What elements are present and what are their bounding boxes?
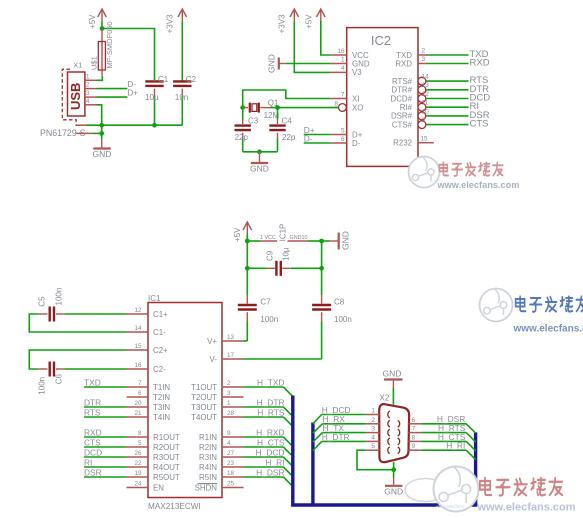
IC1 pin 17 V- <box>210 352 244 364</box>
svg-text:8: 8 <box>138 430 142 437</box>
svg-text:1: 1 <box>371 408 375 415</box>
svg-text:+5V: +5V <box>304 14 313 29</box>
junction node +5V/C1 <box>100 26 105 31</box>
wire and net label H_TX (bus B to X2) <box>313 423 366 442</box>
X1 pin 2 <box>85 82 97 89</box>
svg-text:H_RI: H_RI <box>446 441 465 451</box>
wire and net label RI (IC1 left) <box>84 458 127 468</box>
svg-text:RI: RI <box>84 458 92 468</box>
svg-text:7: 7 <box>341 91 345 98</box>
svg-text:H_RXD: H_RXD <box>256 428 284 438</box>
svg-text:T1IN: T1IN <box>153 383 170 392</box>
wire and net label H_RTS (IC1 right to bus) <box>244 408 293 427</box>
svg-text:2: 2 <box>227 380 231 387</box>
svg-text:2: 2 <box>422 47 426 54</box>
svg-text:2: 2 <box>371 417 375 424</box>
svg-text:RXD: RXD <box>470 58 490 69</box>
IC1 pin 28 T4OUT <box>191 410 243 422</box>
bus bottom horizontal <box>291 503 477 506</box>
wire and net label H_TXD (IC1 right to bus) <box>244 378 293 397</box>
wire +3V3 to C2 <box>181 21 183 81</box>
svg-text:5: 5 <box>341 127 345 134</box>
svg-text:VCC: VCC <box>265 235 276 241</box>
svg-text:H_CTS: H_CTS <box>257 438 285 448</box>
svg-text:8: 8 <box>334 100 338 107</box>
net label D+ (IC2) <box>304 125 315 135</box>
X1 shield pin row <box>76 132 102 134</box>
svg-text:T3IN: T3IN <box>153 403 170 412</box>
IC1 pin 4 R2IN <box>199 440 243 452</box>
svg-text:T1OUT: T1OUT <box>191 383 217 392</box>
IC1 pin 9 R1IN <box>199 430 243 442</box>
connector X2 body (DB9) <box>379 394 409 463</box>
wire and net label H_RI (IC1 right to bus) <box>244 458 293 477</box>
svg-text:R5IN: R5IN <box>199 473 217 482</box>
wire C8 column top <box>321 268 323 303</box>
bus B vertical <box>311 423 314 506</box>
svg-text:GND: GND <box>93 149 112 159</box>
X2 pin 8 <box>398 434 422 444</box>
svg-text:H_DTR: H_DTR <box>257 398 285 408</box>
svg-text:1: 1 <box>341 56 345 63</box>
X2 pin 5 <box>366 443 390 453</box>
wire and net label TXD (IC1 left) <box>84 378 127 388</box>
junction node IC1P gnd <box>319 239 324 244</box>
wire crystal to junction <box>270 107 278 109</box>
svg-text:H_DTR: H_DTR <box>322 432 350 442</box>
net label D- (IC2) <box>304 134 313 144</box>
X2 pin 3 <box>366 426 390 436</box>
wire C8 to IC1 V- pin 17 <box>244 358 322 360</box>
IC1 pin 7 T1IN <box>127 380 171 392</box>
svg-text:D-: D- <box>352 139 361 148</box>
wire and net label H_DCD (IC1 right to bus) <box>244 448 293 467</box>
svg-text:C7: C7 <box>260 298 271 307</box>
X2 pin 7 <box>398 426 422 436</box>
IC1 pin 8 R1OUT <box>127 430 180 442</box>
junction node pin4/rail <box>99 123 104 128</box>
net label D- <box>127 79 136 89</box>
svg-text:7: 7 <box>138 380 142 387</box>
junction node crystal right <box>275 105 280 110</box>
svg-text:CTS#: CTS# <box>392 120 413 129</box>
svg-text:R2IN: R2IN <box>199 443 217 452</box>
decoration watermark 1 (elecfans) - drawn over IC2 corner <box>409 157 520 191</box>
svg-text:R232: R232 <box>393 139 412 148</box>
svg-text:GND: GND <box>290 235 302 241</box>
svg-text:T2IN: T2IN <box>153 393 170 402</box>
svg-text:R4OUT: R4OUT <box>153 463 180 472</box>
supply +3V3 (IC2) <box>278 9 299 33</box>
IC2 pin 11 RI# wire and net label RI <box>400 100 479 113</box>
wire +5V arrow to junction <box>101 21 103 29</box>
svg-text:9: 9 <box>412 443 416 450</box>
svg-text:5: 5 <box>371 443 375 450</box>
svg-text:XI: XI <box>352 94 359 103</box>
wire and net label RTS (IC1 left) <box>84 408 127 418</box>
wire and net label H_DTR (bus B to X2) <box>313 432 366 451</box>
IC1 pin 5 R2OUT <box>127 440 180 452</box>
IC1 pin 14 C1- <box>127 325 167 337</box>
svg-text:21: 21 <box>134 410 142 417</box>
wire and net label H_RI (X2 to bus C) <box>421 441 475 460</box>
svg-text:www.elecfans.com: www.elecfans.com <box>477 502 576 514</box>
wire and net label H_DTR (IC1 right to bus) <box>244 398 293 417</box>
svg-text:C2-: C2- <box>153 365 166 374</box>
svg-text:4: 4 <box>86 98 90 105</box>
svg-text:GND: GND <box>250 164 269 174</box>
svg-text:H_DCD: H_DCD <box>256 448 285 458</box>
decoration watermark 3 (elecfans) <box>405 467 576 514</box>
capacitor C7 100n <box>238 298 278 342</box>
svg-text:GND: GND <box>267 54 277 73</box>
svg-text:20: 20 <box>134 400 142 407</box>
IC1 pin 18 R5IN <box>199 470 243 482</box>
svg-text:2: 2 <box>86 82 90 89</box>
svg-text:C9: C9 <box>266 250 275 261</box>
svg-text:C5: C5 <box>38 296 47 307</box>
GND rail row (USB section) <box>86 124 182 126</box>
IC2 pin 4 V3 <box>330 65 362 77</box>
svg-text:RXD: RXD <box>395 59 412 68</box>
wire X1 pin 4 down to GND rail <box>97 105 102 134</box>
svg-text:www.elecfans.com: www.elecfans.com <box>437 180 520 190</box>
svg-text:R4IN: R4IN <box>199 463 217 472</box>
svg-text:V+: V+ <box>207 337 217 346</box>
junction node C9 right <box>319 266 324 271</box>
svg-text:D-: D- <box>304 134 313 144</box>
wire and net label H_CTS (IC1 right to bus) <box>244 438 293 457</box>
svg-text:1: 1 <box>260 235 263 241</box>
svg-text:9: 9 <box>422 117 426 124</box>
svg-text:IC1P: IC1P <box>279 224 288 242</box>
IC1 pin 25 SHDN <box>195 480 244 492</box>
svg-text:T3OUT: T3OUT <box>191 403 217 412</box>
svg-text:+3V3: +3V3 <box>166 14 175 33</box>
IC2 pin 3 RXD wire and net label RXD <box>395 56 489 69</box>
IC1 pin 21 T4IN <box>127 410 171 422</box>
wire fuse to X1 pin 1 <box>97 76 103 80</box>
svg-text:R3OUT: R3OUT <box>153 453 180 462</box>
wire and net label RXD (IC1 left) <box>84 428 127 438</box>
ground (IC1P, rotated) <box>322 231 351 250</box>
op IC2 body (USB-serial bridge) <box>347 28 418 167</box>
ground (above X2) <box>383 369 403 389</box>
IC2 pin 5 D+ <box>330 127 362 139</box>
svg-text:H_RI: H_RI <box>265 458 284 468</box>
X2 pin 1 <box>366 408 390 418</box>
X1 shield stub to rail <box>76 124 86 126</box>
capacitor C6 100n <box>38 362 127 395</box>
wire +5V column to C9 node <box>246 241 248 268</box>
wire +5V junction to C1 top <box>102 29 155 81</box>
bus A vertical <box>291 396 294 506</box>
svg-text:EN: EN <box>153 483 164 492</box>
IC2 pin 10 DSR# wire and net label DSR <box>391 108 490 121</box>
svg-text:SHDN: SHDN <box>195 483 218 492</box>
wire and net label H_CTS (X2 to bus C) <box>421 432 475 451</box>
wire X2 pin 5 loop to gnd <box>357 450 394 470</box>
svg-text:+5V: +5V <box>88 14 97 29</box>
IC1 pin 3 T2OUT <box>191 390 243 402</box>
svg-text:16: 16 <box>134 362 142 369</box>
svg-text:5: 5 <box>138 440 142 447</box>
wire to ground (crystal) <box>259 152 261 162</box>
wire and net label H_DSR (X2 to bus C) <box>421 414 475 433</box>
supply +5V (IC1 power) <box>233 222 252 242</box>
svg-text:GND: GND <box>352 59 370 68</box>
svg-text:3: 3 <box>371 426 375 433</box>
svg-text:16: 16 <box>337 48 345 55</box>
net label D+ <box>127 88 138 98</box>
wire D- from X1 pin 2 <box>97 88 128 90</box>
svg-text:10µ: 10µ <box>145 93 159 102</box>
svg-text:10n: 10n <box>175 93 188 102</box>
wire XO (junction to pin 8 bubble) <box>278 107 339 109</box>
svg-text:C1-: C1- <box>153 328 166 337</box>
IC1 pin 19 R5OUT <box>127 470 180 482</box>
svg-text:D+: D+ <box>127 88 138 98</box>
wire gnd stub (below X2) <box>393 478 395 485</box>
svg-text:10: 10 <box>422 108 430 115</box>
svg-text:6: 6 <box>138 390 142 397</box>
svg-text:15: 15 <box>421 136 429 143</box>
supply +3V3 (USB section) <box>166 9 187 33</box>
wire and net label H_RXD (IC1 right to bus) <box>244 428 293 447</box>
X2 pin 9 <box>398 443 422 453</box>
svg-text:MF-SMDF050: MF-SMDF050 <box>105 21 114 68</box>
svg-text:DTR#: DTR# <box>391 86 412 95</box>
svg-text:DTR: DTR <box>84 398 101 408</box>
svg-text:24: 24 <box>134 480 142 487</box>
svg-text:GND: GND <box>341 231 351 250</box>
svg-text:C2+: C2+ <box>153 346 168 355</box>
IC2 pin 12 DCD# wire and net label DCD <box>391 91 491 104</box>
svg-text:DCD#: DCD# <box>391 94 413 103</box>
wire C7 column top <box>246 268 248 303</box>
svg-text:3: 3 <box>227 390 231 397</box>
capacitor C8 100n <box>312 298 352 360</box>
svg-text:19: 19 <box>134 470 142 477</box>
decoration watermark 2 (elecfans) <box>480 289 583 335</box>
svg-text:www.elecfans.com: www.elecfans.com <box>513 324 583 335</box>
IC2 pin 6 D- <box>330 136 360 148</box>
X1 pin 4 <box>85 98 97 105</box>
svg-text:C6: C6 <box>55 374 64 385</box>
svg-text:22: 22 <box>134 460 142 467</box>
ground (USB section) <box>93 149 112 160</box>
X2 pin 4 <box>366 434 390 444</box>
svg-text:4: 4 <box>227 440 231 447</box>
svg-text:T4OUT: T4OUT <box>191 413 217 422</box>
svg-text:R3IN: R3IN <box>199 453 217 462</box>
IC1 pin 26 R3OUT <box>127 450 180 462</box>
svg-text:USB: USB <box>68 83 83 110</box>
capacitor C5 100n <box>38 288 127 322</box>
IC1 pin 15 C2+ <box>127 343 169 355</box>
svg-text:6: 6 <box>341 136 345 143</box>
IC1P power gate pins VCC/GND <box>247 224 321 242</box>
svg-text:100n: 100n <box>334 315 352 324</box>
ground (IC2 pin 1, rotated) <box>267 54 286 73</box>
svg-text:X2: X2 <box>380 394 390 403</box>
svg-text:RTS#: RTS# <box>392 77 413 86</box>
svg-text:RTS: RTS <box>84 408 101 418</box>
svg-text:+5V: +5V <box>233 227 242 242</box>
wire +5V to IC2 VCC pin 16 <box>321 21 331 55</box>
wire C3 column <box>242 108 244 124</box>
wire D- to IC2 pin 6 <box>304 142 331 144</box>
junction node X2 gnd <box>391 467 396 472</box>
svg-text:T4IN: T4IN <box>153 413 170 422</box>
svg-text:XO: XO <box>352 103 363 112</box>
wire gnd to X2 top <box>392 388 394 405</box>
svg-text:H_RTS: H_RTS <box>257 408 285 418</box>
svg-text:22p: 22p <box>282 133 296 142</box>
svg-text:14: 14 <box>134 325 142 332</box>
svg-text:3: 3 <box>422 56 426 63</box>
svg-text:1: 1 <box>86 73 90 80</box>
svg-text:13: 13 <box>422 82 430 89</box>
IC2 pin 7 XI <box>330 91 359 103</box>
wire D+ to IC2 pin 5 <box>304 134 331 136</box>
wire crystal gnd row <box>243 151 278 153</box>
svg-text:100n: 100n <box>260 315 278 324</box>
IC2 pin 2 TXD wire and net label TXD <box>396 47 488 60</box>
svg-text:26: 26 <box>134 450 142 457</box>
svg-text:+3V3: +3V3 <box>278 14 287 33</box>
svg-text:4: 4 <box>341 65 345 72</box>
svg-text:C4: C4 <box>282 116 293 125</box>
wire and net label H_DSR (IC1 right to bus) <box>244 468 293 487</box>
svg-text:CTS: CTS <box>470 119 489 130</box>
crystal Q1 12M <box>243 99 280 120</box>
IC2 pin 8 XO (inverted) <box>330 100 363 112</box>
svg-text:25: 25 <box>227 480 235 487</box>
wire and net label H_RTS (X2 to bus C) <box>421 423 475 442</box>
wire and net label H_RX (bus B to X2) <box>313 414 366 433</box>
connector X1 shield outline (dashed) <box>62 69 76 126</box>
IC1 pin 13 V+ <box>207 334 243 346</box>
IC1 pin 2 T1OUT <box>191 380 243 392</box>
capacitor C3 22p <box>235 116 259 152</box>
svg-text:www.elecfans: www.elecfans <box>436 504 465 509</box>
junction node shield/gnd <box>99 131 104 136</box>
svg-text:IC2: IC2 <box>371 33 391 48</box>
svg-text:6: 6 <box>412 417 416 424</box>
wire and net label DCD (IC1 left) <box>84 448 127 458</box>
wire junction to ground <box>101 133 103 147</box>
X1 pin 3 <box>85 90 97 97</box>
svg-text:DCD: DCD <box>84 448 102 458</box>
svg-text:DSR: DSR <box>84 468 102 478</box>
svg-text:U$1: U$1 <box>90 56 99 70</box>
svg-text:T2OUT: T2OUT <box>191 393 217 402</box>
IC1 pin 16 C2- <box>127 362 167 374</box>
svg-text:GND: GND <box>383 369 402 379</box>
svg-text:V3: V3 <box>352 68 362 77</box>
capacitor C9 10u <box>247 247 321 276</box>
bus C vertical (right) <box>474 432 477 505</box>
IC1 pin 23 R4IN <box>199 460 243 472</box>
svg-text:100n: 100n <box>55 288 64 306</box>
IC1 pin 6 T2IN <box>127 390 171 402</box>
wire and net label CTS (IC1 left) <box>84 438 127 448</box>
junction node crystal left <box>240 105 245 110</box>
IC1 pin 22 R4OUT <box>127 460 180 472</box>
svg-text:12: 12 <box>134 307 142 314</box>
svg-text:RXD: RXD <box>84 428 102 438</box>
svg-text:IC1: IC1 <box>148 294 161 303</box>
svg-text:8: 8 <box>412 434 416 441</box>
ground (crystal) <box>250 163 269 174</box>
X2 pin 2 <box>366 417 390 427</box>
svg-text:C1: C1 <box>158 75 169 84</box>
svg-text:C8: C8 <box>334 298 345 307</box>
capacitor C4 22p <box>269 116 296 152</box>
junction node +5V/IC1P <box>245 239 250 244</box>
svg-text:7: 7 <box>412 426 416 433</box>
svg-text:23: 23 <box>227 460 235 467</box>
svg-text:10: 10 <box>302 235 308 241</box>
svg-text:18: 18 <box>227 470 235 477</box>
svg-text:RI#: RI# <box>400 103 413 112</box>
IC1 pin 24 EN <box>127 480 165 492</box>
IC2 pin 1 GND <box>330 56 369 68</box>
svg-text:22p: 22p <box>235 133 249 142</box>
junction node C1/rail <box>152 123 157 128</box>
svg-text:V-: V- <box>210 355 218 364</box>
svg-text:CTS: CTS <box>84 438 101 448</box>
wire +5V arrow to node <box>246 234 248 241</box>
svg-text:MAX213ECWI: MAX213ECWI <box>148 502 201 511</box>
svg-text:1: 1 <box>227 400 231 407</box>
svg-text:17: 17 <box>227 352 235 359</box>
svg-text:R5OUT: R5OUT <box>153 473 180 482</box>
svg-text:R1OUT: R1OUT <box>153 433 180 442</box>
svg-text:13: 13 <box>227 334 235 341</box>
wire +3V3 to IC2 V3 pin 4 <box>294 21 330 72</box>
wire C7 to IC1 V+ pin 13 <box>244 340 248 342</box>
capacitor C1 10u <box>145 75 169 125</box>
svg-text:C2: C2 <box>186 75 197 84</box>
junction node C9 left <box>245 266 250 271</box>
IC1 pin 1 T3OUT <box>191 400 243 412</box>
svg-text:R2OUT: R2OUT <box>153 443 180 452</box>
IC2 pin 9 CTS# wire and net label CTS <box>392 117 489 130</box>
svg-text:4: 4 <box>371 434 375 441</box>
wire GND to IC2 pin 1 <box>286 63 331 65</box>
svg-text:9: 9 <box>227 430 231 437</box>
wire pin 15 to C6 <box>29 350 126 369</box>
svg-text:10µ: 10µ <box>281 247 290 261</box>
svg-text:GND: GND <box>384 486 403 496</box>
IC2 pin 14 RTS# wire and net label RTS <box>392 74 488 87</box>
junction node crystal gnd <box>257 149 262 154</box>
svg-text:14: 14 <box>422 74 430 81</box>
svg-text:X1: X1 <box>73 61 82 70</box>
supply +5V (IC2) <box>304 9 325 29</box>
svg-text:C1+: C1+ <box>153 310 168 319</box>
ground (below X2) <box>384 486 403 497</box>
wire and net label DTR (IC1 left) <box>84 398 127 408</box>
IC2 pin 16 VCC <box>330 48 369 60</box>
IC1 pin 20 T3IN <box>127 400 171 412</box>
svg-text:3: 3 <box>86 90 90 97</box>
capacitor C2 10n <box>173 75 196 125</box>
svg-text:H_DSR: H_DSR <box>256 468 284 478</box>
svg-text:C3: C3 <box>248 116 259 125</box>
